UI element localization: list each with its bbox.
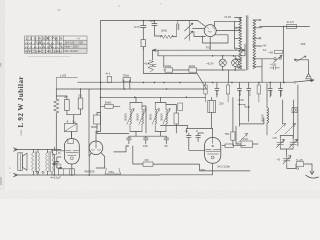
rectifier tube T63	[204, 25, 216, 37]
resistor R6 (boxed)	[165, 68, 173, 72]
wire: R10 link	[101, 105, 120, 107]
wire: output line right	[222, 145, 245, 147]
resistor R11 (boxed)	[174, 113, 179, 124]
transformer core	[246, 16, 248, 71]
resistor R2 (boxed)	[65, 100, 70, 111]
wire: R4 bottom	[142, 47, 144, 51]
IF transformer can	[208, 101, 216, 113]
wire: mid return line	[133, 146, 143, 164]
wire: primary taps	[235, 18, 242, 67]
wire: R9 stubs	[124, 80, 130, 89]
resistor R4 (boxed)	[141, 40, 146, 47]
IF coil L1	[127, 103, 134, 132]
wire: C5 leads	[97, 113, 101, 134]
resistor R7 (boxed)	[189, 68, 197, 72]
resistor R10 (boxed) on wire	[105, 104, 113, 108]
padder capacitor box	[296, 162, 303, 167]
wire: R11 leads	[166, 105, 176, 134]
wire: socket bottom leads	[89, 153, 105, 176]
wire: socket drop joins bus	[96, 167, 105, 169]
wire: trimmer CT3 links	[287, 164, 312, 169]
wire: switch to T63	[193, 29, 206, 37]
faint rule under table	[28, 56, 70, 58]
wire: long vertical from top bus	[96, 21, 101, 132]
wire: C3 link	[177, 21, 198, 37]
wire: tube2 area bottom bus	[62, 174, 213, 176]
capacitor C8	[187, 133, 192, 142]
small can box	[178, 103, 183, 111]
resistor stub	[204, 83, 207, 103]
wire: R12 leads	[232, 98, 234, 146]
switch hub terminal	[292, 108, 297, 113]
secondary terminals	[259, 19, 261, 39]
component box left	[241, 141, 253, 148]
capacitor stub	[215, 83, 219, 98]
resistor R13 (boxed) horizontal	[225, 144, 233, 148]
wire: coil tops	[130, 97, 166, 136]
wire: speaker to transformer	[34, 150, 39, 176]
wire: cap box links	[71, 132, 73, 138]
junction: mains bus	[283, 26, 285, 28]
wire: tube V1 side lead	[56, 150, 64, 152]
dial lamp La1	[219, 59, 226, 66]
resistor R8 on HT bus	[107, 76, 111, 82]
mains switch	[274, 55, 283, 62]
wire: trimmer pair links	[280, 136, 293, 156]
wire: heater drop left	[158, 50, 164, 67]
chassis box L163	[56, 77, 77, 89]
wire: switch to earth arrow	[308, 60, 310, 74]
wire: drop to switch	[262, 27, 284, 83]
resistor R12 (boxed) vertical	[231, 132, 235, 140]
wire: socket top lead	[95, 132, 97, 142]
wire: grid feed	[189, 142, 205, 151]
capacitor C3	[177, 24, 179, 30]
wire: T63 to transformer	[203, 18, 241, 51]
resistor R14 (boxed)	[143, 162, 153, 166]
capacitor C2	[152, 23, 157, 25]
wire: cluster bottom links	[97, 134, 166, 137]
heater line with arrows	[153, 44, 246, 51]
wire: left drop from screen bus	[88, 89, 90, 156]
wire: top anode bus	[101, 20, 198, 22]
capacitor C7b	[164, 136, 169, 144]
model label (vertical)	[17, 76, 25, 135]
wire: cathode bus	[101, 96, 206, 98]
loudspeaker terminals (arrows)	[14, 148, 18, 177]
resistor R3 (boxed)	[78, 98, 83, 109]
band switch arrows	[275, 124, 296, 135]
wire: box leads	[236, 126, 258, 144]
wire: g bus into tube2	[186, 129, 212, 134]
wire: heater return	[143, 47, 196, 74]
grid resistor R1	[54, 99, 59, 113]
wire: R14 to right	[153, 164, 250, 171]
capacitor stub	[247, 83, 251, 122]
IF coil L2	[139, 103, 146, 132]
electrolytic blob	[53, 163, 55, 165]
wire: left link	[240, 84, 267, 124]
speaker plug terminals	[36, 171, 44, 173]
capacitor C1	[141, 25, 146, 27]
mains transformer primary	[239, 18, 242, 69]
field coil winding	[46, 152, 54, 173]
wire: R6 R7 link	[164, 69, 246, 71]
pole switch right	[294, 56, 308, 62]
capacitor C250	[270, 66, 280, 69]
wire: lamp stubs	[223, 56, 236, 83]
junction dots on buses	[80, 82, 285, 98]
wire: field coil connections	[48, 150, 53, 176]
wave switch contacts	[185, 21, 193, 41]
junction dots bottom rail	[54, 174, 90, 176]
terminal on HT bus	[294, 81, 296, 83]
trimmer capacitor CT2	[289, 138, 297, 149]
dust specks	[9, 3, 162, 175]
wire: tube V1 bottom lead	[71, 164, 73, 175]
wire: C2 leads	[154, 21, 162, 37]
wire: tube V1 top lead	[71, 132, 73, 139]
mains plug arrow	[305, 74, 312, 79]
wire: screen bus	[56, 88, 206, 90]
wire: can to tube2	[211, 97, 213, 128]
capacitor stub	[237, 83, 241, 127]
wire: tube2 top lead	[212, 129, 214, 138]
wire: tube2 bottom lead	[212, 163, 214, 174]
wire: R5 leads	[161, 35, 177, 38]
capacitor stub	[278, 83, 282, 98]
wire: secondary taps	[253, 20, 262, 67]
resistor box at speaker	[52, 150, 56, 154]
capacitor C5 (boxed)	[94, 115, 101, 124]
mains transformer secondary	[253, 20, 256, 69]
left edge scan marks	[0, 63, 2, 185]
labels for stubs	[215, 89, 283, 96]
right coil L5	[267, 100, 269, 135]
decoupling stubs below HT bus	[204, 83, 283, 127]
wire: R3 leads	[80, 89, 82, 115]
wire: mid link	[161, 126, 188, 129]
dial lamp La2	[232, 59, 239, 66]
wire: diagonal to HT bus	[197, 73, 207, 90]
antenna arrow	[306, 164, 319, 178]
wire: R2 leads	[67, 96, 81, 124]
capacitor across field coil	[55, 157, 62, 168]
wire: branch vertical	[142, 106, 146, 133]
output tube 2 (M.O.)	[205, 138, 221, 164]
junction dots AVC	[239, 104, 250, 108]
capacitor C6	[127, 136, 132, 144]
hum resistor cluster	[148, 61, 156, 73]
wire: bus to rectifier	[198, 21, 206, 27]
junction dots lamps	[212, 55, 236, 71]
capacitor C9	[196, 133, 204, 142]
loudspeaker	[18, 153, 27, 171]
wire: avc link	[239, 105, 248, 108]
wire: line y152	[114, 146, 126, 152]
wire: HT bus arrow end	[296, 79, 314, 82]
resistor R9 on HT bus	[123, 78, 131, 82]
coupling capacitor (boxed with diagonal)	[65, 121, 78, 132]
wire: right verticals	[283, 85, 298, 146]
wire: C1 leads	[142, 21, 144, 40]
IF coil L4	[163, 103, 170, 132]
junction dots top bus	[143, 20, 156, 22]
wire: node at R1	[55, 89, 57, 149]
wire: heater bus 2	[158, 50, 245, 56]
trimmer capacitor CT3	[283, 155, 291, 165]
speaker bottom rail wire	[15, 174, 62, 176]
wire: top link R2 R3	[56, 95, 67, 97]
IF coil L3	[152, 103, 159, 132]
primary tap terminals	[235, 27, 237, 60]
trimmer capacitor CT1	[277, 138, 285, 149]
capacitor C7	[144, 136, 161, 144]
output tube V1	[64, 139, 79, 164]
voltage selector table	[25, 36, 88, 53]
resistor stub	[257, 83, 260, 103]
switch arrow mid	[238, 134, 248, 144]
resistor R5 zigzag	[161, 35, 174, 39]
RC unit box	[275, 50, 283, 53]
resistor stub	[227, 83, 230, 103]
dial lamp bracket	[105, 168, 121, 174]
output transformer windings	[32, 152, 40, 173]
electrolytic block on rail	[59, 166, 75, 175]
capacitor stub	[268, 83, 272, 98]
wire: HT bus	[78, 81, 294, 83]
tube socket (bottom view)	[89, 141, 103, 155]
wire: secondary drop	[261, 59, 263, 83]
wire: stack lead	[53, 147, 55, 175]
fuse	[287, 25, 297, 29]
wire: mains feed bus	[260, 26, 310, 28]
speaker top rail wire	[15, 149, 62, 151]
